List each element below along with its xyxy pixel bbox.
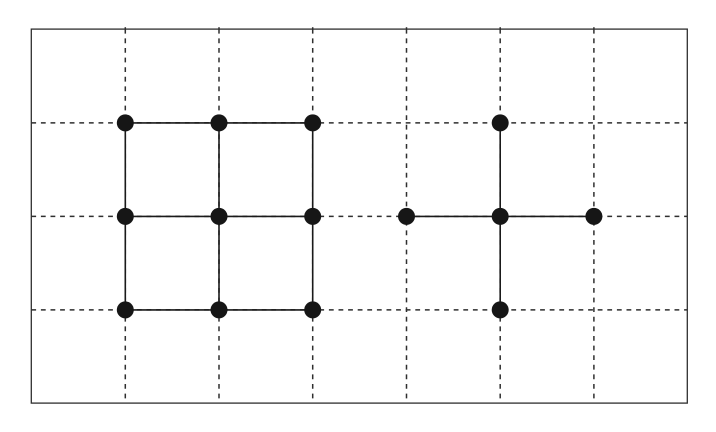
node B3 bbox=[304, 208, 321, 225]
left lattice nodes bbox=[117, 114, 321, 318]
node A1 bbox=[117, 114, 134, 131]
wire row3 bbox=[125, 309, 312, 311]
wire row2 bbox=[125, 215, 312, 217]
right cross edges bbox=[407, 123, 594, 310]
wire col3 bbox=[312, 123, 314, 310]
node right bbox=[585, 208, 602, 225]
wire col2 bbox=[218, 123, 220, 310]
node B1 bbox=[117, 208, 134, 225]
node C1 bbox=[117, 301, 134, 318]
node top bbox=[492, 114, 509, 131]
dashed grid vertical lines bbox=[125, 29, 594, 404]
wire cross vertical bbox=[499, 123, 501, 310]
node B2 bbox=[211, 208, 228, 225]
left lattice edges bbox=[125, 123, 312, 310]
wire row1 bbox=[125, 122, 312, 124]
dashed grid horizontal lines bbox=[31, 123, 687, 310]
wire cross horizontal bbox=[407, 215, 594, 217]
wire col1 bbox=[124, 123, 126, 310]
node A3 bbox=[304, 114, 321, 131]
node center bbox=[492, 208, 509, 225]
border frame bbox=[31, 29, 687, 403]
node A2 bbox=[211, 114, 228, 131]
node bottom bbox=[492, 301, 509, 318]
node C2 bbox=[211, 301, 228, 318]
grid tick overshoots above border bbox=[125, 27, 594, 29]
node C3 bbox=[304, 301, 321, 318]
node left bbox=[398, 208, 415, 225]
right cross nodes bbox=[398, 114, 602, 318]
